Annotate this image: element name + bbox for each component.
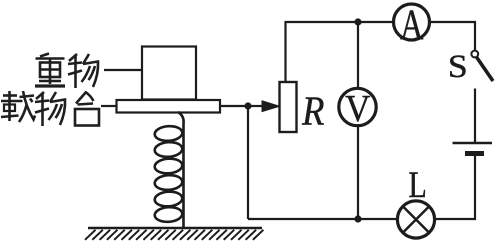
- 物: [68, 54, 98, 88]
- switch S contact: [471, 51, 478, 58]
- wire wiper junction down: [247, 106, 249, 219]
- switch S blade: [477, 58, 493, 82]
- weight block: [142, 47, 196, 100]
- platform: [117, 100, 221, 113]
- wire battery to bottom rail corner: [436, 156, 475, 219]
- wire platform to wiper junction: [220, 105, 248, 107]
- 重: [35, 54, 65, 87]
- rheostat R wiper arrow: [248, 101, 280, 112]
- ground: [85, 228, 263, 240]
- wire switch to battery: [474, 89, 476, 143]
- leader line to platform: [101, 105, 117, 107]
- node bottom junction: [354, 215, 361, 222]
- node wiper junction: [244, 102, 251, 109]
- wire voltmeter bottom: [357, 127, 359, 219]
- svg-text:S: S: [448, 48, 468, 85]
- svg-text:L: L: [409, 165, 427, 206]
- wire bottom rail left: [248, 218, 396, 220]
- 台: [75, 92, 99, 126]
- 载: [1, 91, 35, 122]
- 物 again: [35, 92, 65, 126]
- lamp L: [397, 201, 434, 238]
- voltmeter V: [339, 87, 376, 130]
- battery: [453, 143, 493, 154]
- wire rheostat top: [284, 22, 286, 82]
- leader line to weight block: [104, 69, 142, 71]
- label 重物 (weight) hand-drawn glyphs: [35, 54, 98, 89]
- wire voltmeter top: [357, 22, 359, 87]
- spring: [154, 112, 183, 228]
- svg-text:A: A: [400, 2, 424, 50]
- svg-text:V: V: [345, 87, 370, 130]
- wire ammeter to switch corner: [431, 22, 475, 50]
- wire top rail: [285, 21, 393, 23]
- rheostat R body: [280, 82, 297, 132]
- label 载物台 (platform) hand-drawn glyphs: [1, 91, 99, 126]
- svg-text:R: R: [301, 89, 324, 135]
- ammeter A: [394, 2, 430, 50]
- node top junction: [354, 18, 361, 25]
